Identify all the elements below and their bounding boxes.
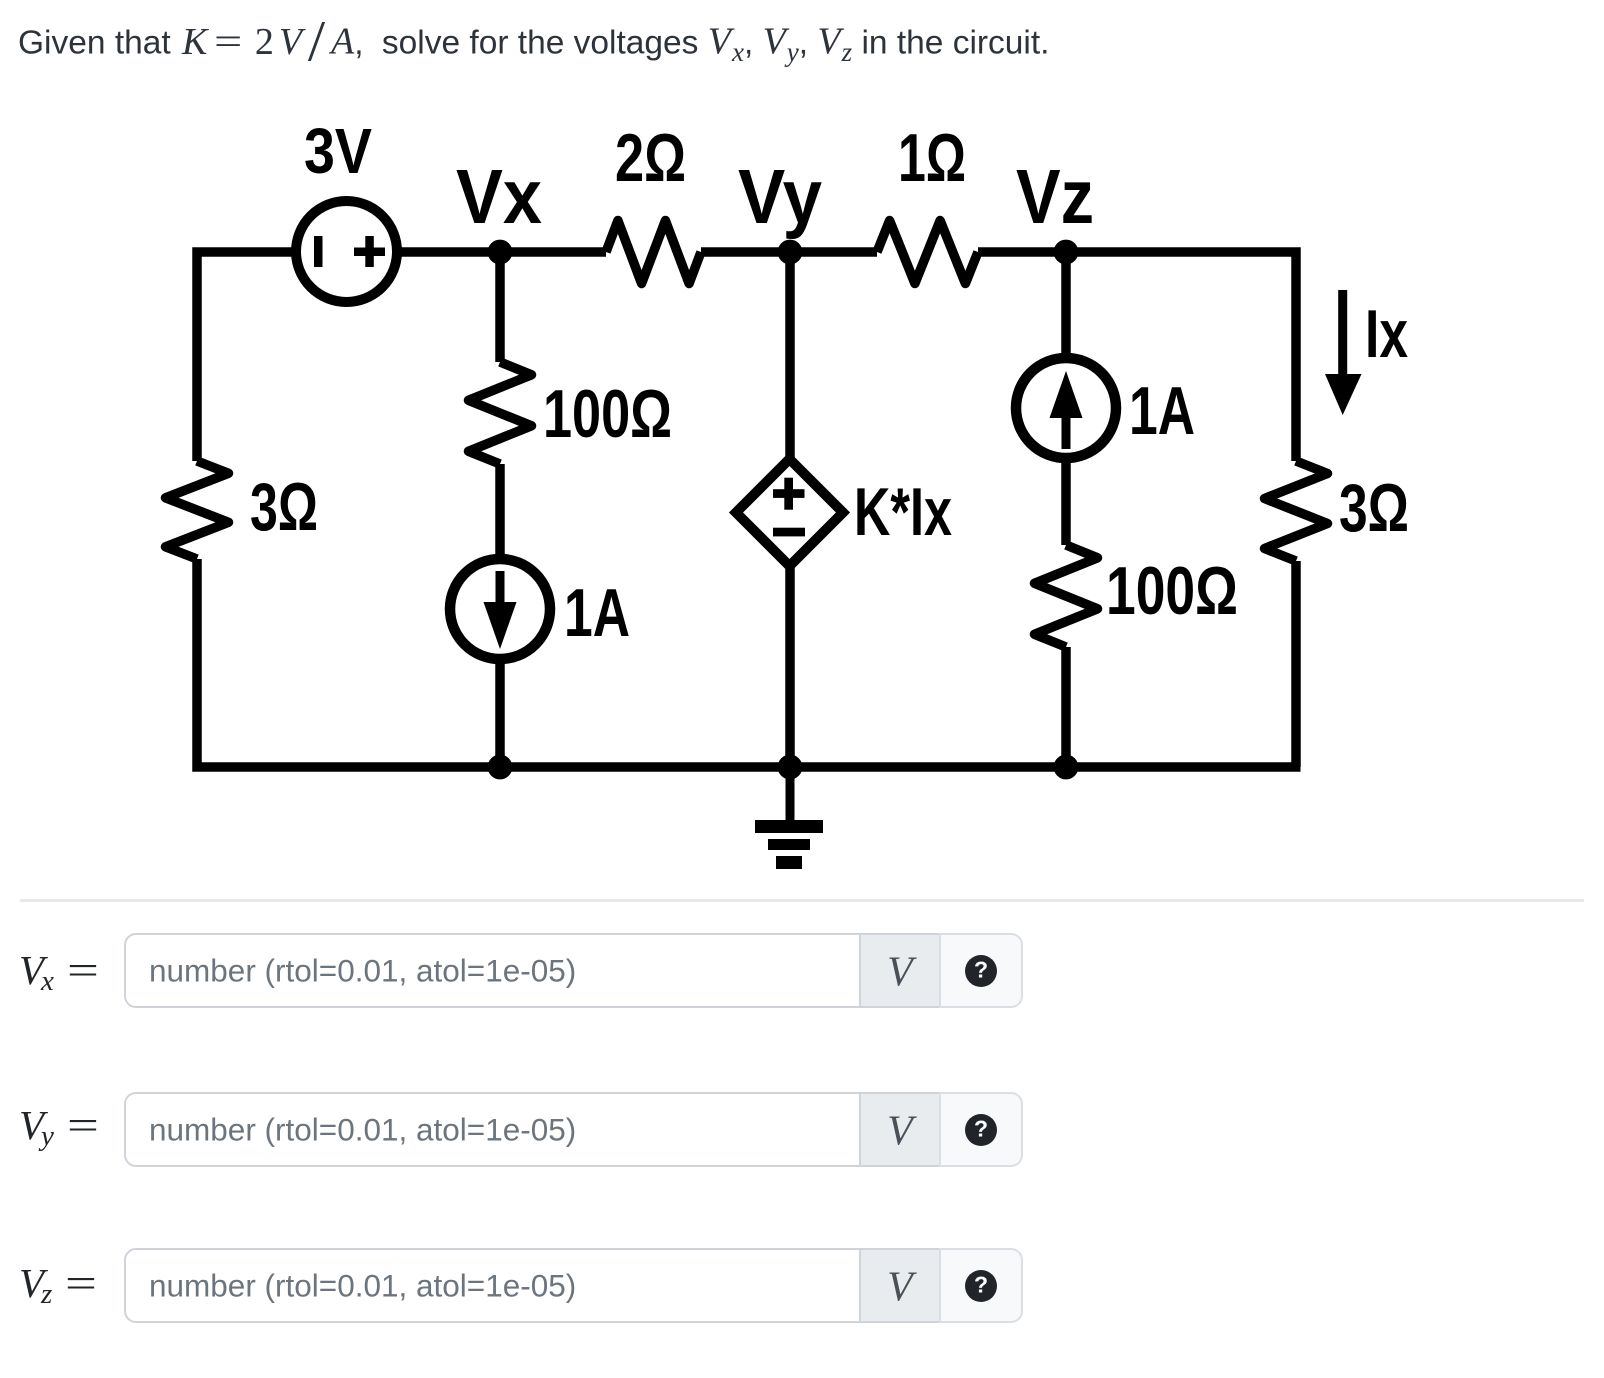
svg-text:3Ω: 3Ω	[250, 469, 318, 545]
svg-text:Vx: Vx	[456, 154, 542, 240]
svg-text:2Ω: 2Ω	[615, 120, 686, 196]
svg-text:Ix: Ix	[1365, 296, 1408, 372]
svg-text:K*Ix: K*Ix	[854, 474, 952, 550]
svg-text:100Ω: 100Ω	[543, 376, 672, 452]
svg-text:100Ω: 100Ω	[1106, 553, 1238, 629]
svg-text:1Ω: 1Ω	[898, 120, 966, 196]
svg-text:3V: 3V	[304, 115, 372, 187]
svg-text:Vy: Vy	[738, 154, 822, 240]
svg-text:Vz: Vz	[1016, 154, 1094, 240]
svg-text:3Ω: 3Ω	[1339, 470, 1409, 546]
svg-text:1A: 1A	[564, 575, 630, 651]
svg-text:1A: 1A	[1129, 373, 1195, 449]
